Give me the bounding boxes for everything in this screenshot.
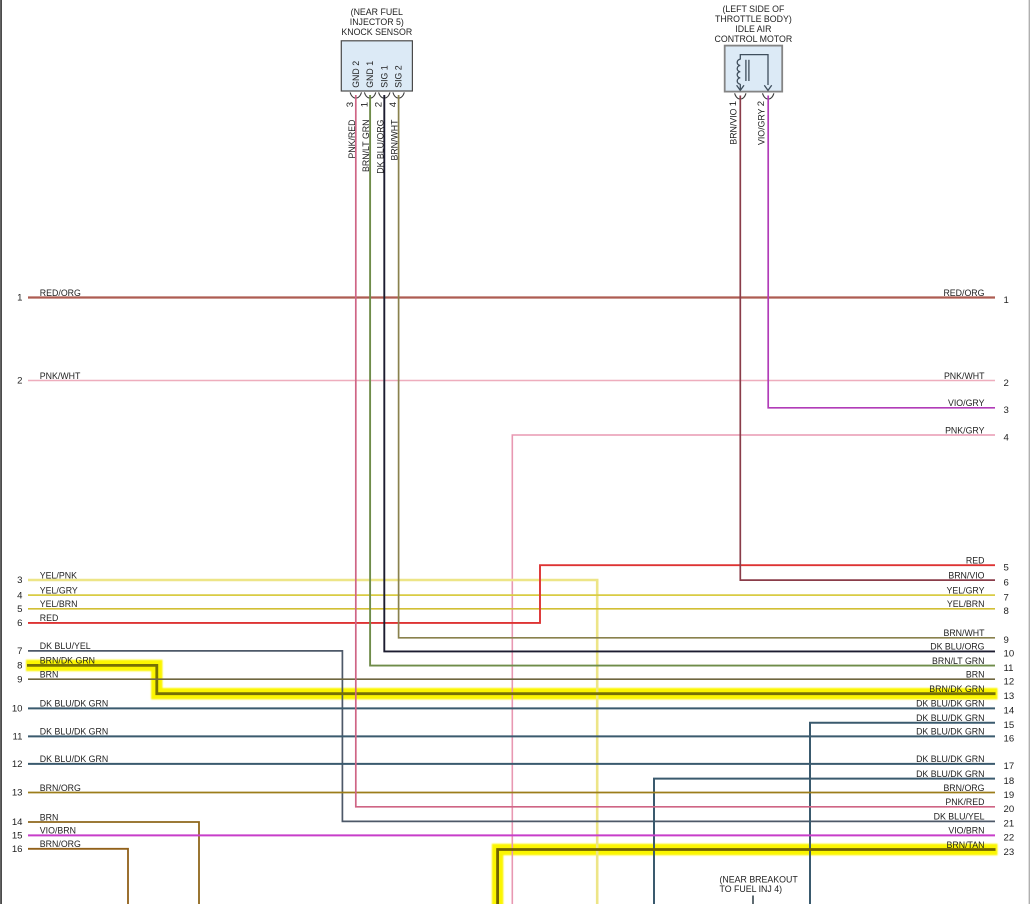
svg-text:3: 3 [345, 102, 356, 107]
svg-text:YEL/BRN: YEL/BRN [947, 599, 985, 609]
svg-text:YEL/BRN: YEL/BRN [40, 599, 78, 609]
wire YEL/BRN left5 right8 [28, 608, 995, 610]
right row numbers [1004, 295, 1015, 858]
svg-text:5: 5 [1004, 563, 1009, 574]
svg-text:YEL/PNK: YEL/PNK [40, 570, 77, 580]
svg-text:PNK/RED: PNK/RED [347, 120, 357, 159]
svg-text:BRN/DK GRN: BRN/DK GRN [929, 684, 984, 694]
idle air control motor connector arcs [735, 93, 774, 99]
left wire labels [40, 288, 108, 849]
svg-text:1: 1 [17, 293, 22, 304]
svg-text:BRN/WHT: BRN/WHT [390, 119, 400, 161]
wire PNK/GRY right 4 down [512, 435, 995, 904]
svg-text:4: 4 [17, 590, 23, 601]
svg-text:VIO/BRN: VIO/BRN [40, 826, 76, 836]
svg-text:SIG 1: SIG 1 [379, 65, 389, 88]
knock sensor pin labels GND 2 GND 1 SIG 1 SIG 2 [351, 61, 404, 88]
left page border [0, 0, 2, 904]
svg-text:16: 16 [12, 844, 23, 855]
svg-text:RED: RED [966, 556, 985, 566]
svg-text:9: 9 [17, 674, 22, 685]
svg-text:PNK/WHT: PNK/WHT [944, 371, 985, 381]
svg-text:2: 2 [374, 102, 385, 107]
svg-text:DK BLU/DK GRN: DK BLU/DK GRN [916, 727, 984, 737]
svg-text:6: 6 [17, 618, 22, 629]
wire DK BLU/DK GRN left12 right17 [28, 763, 995, 765]
wire breakout stub to fuel inj 4 [752, 896, 754, 904]
highlight band wire 23 BRN/TAN [498, 850, 998, 904]
svg-text:PNK/GRY: PNK/GRY [945, 425, 985, 435]
svg-text:GND 2: GND 2 [351, 61, 361, 88]
svg-text:IDLE AIR: IDLE AIR [735, 24, 771, 34]
wire DK BLU/DK GRN left11 right16 [28, 735, 995, 737]
wire VIO/GRY IAC pin2 to right 3 [768, 96, 995, 408]
svg-text:16: 16 [1004, 734, 1015, 745]
svg-text:PNK/WHT: PNK/WHT [40, 371, 81, 381]
knock sensor wire labels [347, 119, 400, 174]
svg-text:6: 6 [1004, 577, 1009, 588]
wire YEL/GRY left4 right7 [28, 594, 995, 596]
svg-text:5: 5 [17, 604, 22, 615]
wire BRN/TAN core right23 down [498, 850, 996, 904]
svg-text:2: 2 [17, 376, 22, 387]
wire BRN/ORG left16 down [28, 849, 128, 904]
svg-text:(LEFT SIDE OF: (LEFT SIDE OF [722, 4, 785, 14]
svg-text:YEL/GRY: YEL/GRY [947, 585, 985, 595]
right wire labels [916, 288, 985, 850]
svg-text:BRN/ORG: BRN/ORG [40, 839, 81, 849]
wire BRN/WHT knock pin4 to right9 [399, 95, 995, 638]
wire BRN/VIO IAC pin1 to right 6 [740, 96, 995, 581]
wire BRN/ORG left13 right19 [28, 792, 995, 794]
wire DK BLU/DK GRN right18 down [654, 779, 995, 904]
svg-text:CONTROL MOTOR: CONTROL MOTOR [715, 34, 793, 44]
svg-text:DK BLU/DK GRN: DK BLU/DK GRN [916, 769, 984, 779]
idle air control motor box [725, 46, 783, 92]
wire DK BLU/DK GRN right15 down [810, 723, 995, 904]
svg-text:14: 14 [1004, 706, 1015, 717]
wire BRN/LT GRN knock pin1 to right11 [370, 95, 995, 666]
breakout label near fuel inj 4 [720, 875, 799, 895]
svg-text:VIO/GRY: VIO/GRY [756, 108, 766, 145]
wire 2 PNK/WHT [28, 380, 995, 382]
svg-text:BRN: BRN [966, 670, 985, 680]
idle air control motor wire labels [728, 108, 766, 145]
svg-text:YEL/GRY: YEL/GRY [40, 585, 78, 595]
idle air control motor pin numbers 1 2 [728, 101, 767, 106]
wire BRN/DK GRN core left8 right13 [27, 665, 996, 693]
svg-text:PNK/RED: PNK/RED [945, 797, 984, 807]
svg-text:12: 12 [1004, 677, 1015, 688]
svg-text:BRN/LT GRN: BRN/LT GRN [932, 656, 984, 666]
wire YEL/PNK left 3 down [28, 580, 597, 904]
svg-text:22: 22 [1004, 833, 1015, 844]
svg-text:(NEAR BREAKOUT: (NEAR BREAKOUT [720, 875, 799, 885]
knock sensor connector arcs [350, 92, 404, 98]
svg-text:18: 18 [1004, 776, 1015, 787]
svg-text:DK BLU/YEL: DK BLU/YEL [40, 641, 91, 651]
wire PNK/RED knock pin3 to right20 [356, 95, 995, 807]
svg-text:4: 4 [388, 101, 399, 107]
wire BRN left14 down [28, 822, 199, 904]
svg-text:2: 2 [756, 101, 767, 106]
svg-text:9: 9 [1004, 635, 1009, 646]
wire BRN left9 right12 [28, 678, 995, 680]
idle air control motor arrows [737, 85, 772, 90]
highlight band wire 8-to-13 BRN/DK GRN [26, 665, 998, 693]
svg-text:2: 2 [1004, 378, 1009, 389]
svg-text:DK BLU/DK GRN: DK BLU/DK GRN [916, 713, 984, 723]
svg-text:THROTTLE BODY): THROTTLE BODY) [715, 14, 792, 24]
svg-text:1: 1 [360, 102, 371, 107]
idle air control motor title [715, 4, 793, 44]
svg-text:GND 1: GND 1 [365, 61, 375, 88]
svg-text:15: 15 [12, 831, 23, 842]
svg-text:1: 1 [728, 101, 739, 106]
wire VIO/BRN left15 right22 [28, 834, 995, 836]
svg-text:8: 8 [1004, 606, 1009, 617]
svg-text:INJECTOR 5): INJECTOR 5) [350, 17, 404, 27]
svg-text:DK BLU/YEL: DK BLU/YEL [934, 812, 985, 822]
svg-text:DK BLU/ORG: DK BLU/ORG [930, 642, 984, 652]
svg-text:8: 8 [17, 661, 22, 672]
left row numbers [12, 293, 23, 855]
svg-text:14: 14 [12, 817, 23, 828]
svg-text:7: 7 [17, 646, 22, 657]
svg-text:BRN/LT GRN: BRN/LT GRN [361, 120, 371, 172]
knock sensor connector box [341, 41, 412, 91]
right page border [1029, 0, 1030, 904]
svg-text:15: 15 [1004, 720, 1015, 731]
wire 1 RED/ORG [28, 296, 995, 298]
idle air control motor coil symbol [737, 55, 768, 90]
svg-text:10: 10 [12, 704, 23, 715]
svg-text:TO FUEL INJ 4): TO FUEL INJ 4) [720, 884, 783, 894]
svg-text:(NEAR FUEL: (NEAR FUEL [351, 7, 403, 17]
svg-text:RED: RED [40, 613, 59, 623]
svg-text:DK BLU/DK GRN: DK BLU/DK GRN [40, 754, 108, 764]
svg-text:4: 4 [1004, 432, 1010, 443]
svg-text:DK BLU/ORG: DK BLU/ORG [375, 119, 385, 173]
svg-text:BRN: BRN [40, 670, 59, 680]
svg-text:3: 3 [17, 575, 22, 586]
svg-text:BRN/WHT: BRN/WHT [943, 628, 985, 638]
svg-text:RED/ORG: RED/ORG [40, 288, 81, 298]
svg-text:KNOCK SENSOR: KNOCK SENSOR [341, 27, 412, 37]
svg-text:BRN/VIO: BRN/VIO [948, 570, 984, 580]
svg-text:19: 19 [1004, 790, 1015, 801]
knock sensor title [341, 7, 412, 37]
svg-text:BRN/VIO: BRN/VIO [728, 108, 738, 144]
svg-text:1: 1 [1004, 295, 1009, 306]
svg-text:BRN/ORG: BRN/ORG [943, 783, 984, 793]
svg-text:SIG 2: SIG 2 [394, 65, 404, 88]
svg-text:BRN/TAN: BRN/TAN [947, 840, 985, 850]
svg-text:20: 20 [1004, 804, 1015, 815]
wire RED left6 right5 [28, 565, 995, 623]
svg-text:BRN/ORG: BRN/ORG [40, 783, 81, 793]
svg-text:VIO/BRN: VIO/BRN [948, 826, 984, 836]
svg-text:11: 11 [13, 732, 23, 743]
svg-text:DK BLU/DK GRN: DK BLU/DK GRN [40, 699, 108, 709]
svg-text:DK BLU/DK GRN: DK BLU/DK GRN [916, 754, 984, 764]
wire DK BLU/YEL left7 right21 [28, 651, 995, 822]
knock sensor pin numbers 3 1 2 4 [345, 101, 399, 107]
svg-text:BRN: BRN [40, 812, 59, 822]
svg-text:BRN/DK GRN: BRN/DK GRN [40, 656, 95, 666]
svg-text:17: 17 [1004, 761, 1015, 772]
svg-text:23: 23 [1004, 847, 1015, 858]
wire DK BLU/ORG knock pin2 to right10 [384, 95, 995, 651]
svg-text:DK BLU/DK GRN: DK BLU/DK GRN [916, 699, 984, 709]
svg-text:7: 7 [1004, 592, 1009, 603]
svg-text:DK BLU/DK GRN: DK BLU/DK GRN [40, 727, 108, 737]
svg-text:3: 3 [1004, 405, 1009, 416]
svg-text:13: 13 [12, 788, 23, 799]
svg-text:11: 11 [1004, 663, 1014, 674]
svg-text:RED/ORG: RED/ORG [943, 288, 984, 298]
svg-text:21: 21 [1004, 819, 1015, 830]
svg-text:13: 13 [1004, 691, 1015, 702]
svg-text:VIO/GRY: VIO/GRY [948, 398, 985, 408]
svg-text:10: 10 [1004, 649, 1015, 660]
svg-text:12: 12 [12, 759, 23, 770]
wire DK BLU/DK GRN left10 right14 [28, 707, 995, 709]
